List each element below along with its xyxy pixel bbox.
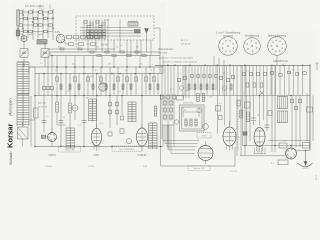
svg-text:1123: 1123 (316, 175, 318, 180)
svg-text:0,1: 0,1 (170, 89, 173, 91)
svg-text:gekuppelt: gekuppelt (181, 43, 190, 46)
svg-text:0,1: 0,1 (95, 70, 98, 72)
svg-text:0,1: 0,1 (292, 70, 295, 72)
svg-text:12193: 12193 (88, 166, 95, 168)
svg-text:Ber. 510/1620kHz: Ber. 510/1620kHz (119, 148, 134, 151)
svg-text:Gn 0,5 Gr: Gn 0,5 Gr (38, 106, 47, 109)
svg-text:0,1: 0,1 (78, 125, 81, 127)
svg-text:Korsar: Korsar (6, 123, 15, 148)
svg-text:6W 6W: 6W 6W (101, 45, 109, 47)
svg-text:50: 50 (222, 73, 224, 75)
svg-text:UF85: UF85 (93, 155, 99, 157)
svg-text:50p: 50p (72, 64, 75, 66)
svg-text:0,1: 0,1 (283, 141, 286, 143)
svg-text:50: 50 (242, 110, 244, 112)
svg-text:50: 50 (63, 117, 65, 119)
svg-text:(Autosuper): (Autosuper) (9, 98, 13, 116)
svg-text:400Ω: 400Ω (202, 136, 207, 138)
svg-text:0,1: 0,1 (246, 71, 249, 73)
svg-text:0,1: 0,1 (40, 63, 43, 65)
svg-text:W. 1-3: W. 1-3 (181, 40, 188, 42)
svg-text:UCH81: UCH81 (48, 155, 56, 157)
svg-text:6W: 6W (96, 47, 99, 49)
svg-text:6.05: 6.05 (55, 32, 60, 34)
svg-text:6-W228/Y2-32: 6-W228/Y2-32 (273, 61, 289, 63)
svg-text:0,5: 0,5 (46, 116, 49, 118)
svg-text:5k: 5k (150, 70, 152, 72)
svg-text:a: a (63, 76, 64, 78)
svg-text:1,2008: 1,2008 (45, 166, 52, 168)
svg-text:6W 0,1 4W: 6W 0,1 4W (65, 149, 75, 151)
svg-text:0,05: 0,05 (209, 97, 213, 99)
svg-text:5k: 5k (257, 115, 259, 117)
svg-text:b.6V6: b.6V6 (104, 20, 110, 22)
svg-text:0,05: 0,05 (162, 97, 166, 99)
svg-text:Auto 6B+: Auto 6B+ (38, 102, 47, 105)
svg-text:Beide W. u. Gemeinsam geschalt: Beide W. u. Gemeinsam geschaltet (159, 57, 194, 60)
svg-text:5k: 5k (55, 70, 57, 72)
svg-text:ZF 452 kHz: ZF 452 kHz (183, 102, 193, 104)
svg-text:4/Y2-32: 4/Y2-32 (230, 171, 238, 173)
svg-text:0,1: 0,1 (219, 103, 222, 105)
svg-text:Gleichr. 125: Gleichr. 125 (193, 167, 205, 170)
svg-text:UABC80: UABC80 (138, 154, 148, 157)
svg-text:50: 50 (116, 47, 118, 49)
svg-text:Novalfassung: Novalfassung (245, 34, 260, 37)
svg-text:Stahlrohrfassung: Stahlrohrfassung (268, 34, 287, 37)
svg-text:von unten: von unten (223, 35, 234, 38)
svg-text:6W: 6W (136, 47, 139, 49)
svg-text:6W: 6W (58, 47, 61, 49)
svg-text:Schalter in Stellung: Links ge: Schalter in Stellung: Links gedruckt (163, 60, 198, 63)
svg-text:Schaub: Schaub (8, 151, 13, 165)
svg-text:50: 50 (186, 90, 188, 92)
svg-text:0,1: 0,1 (178, 73, 181, 75)
svg-text:50: 50 (140, 64, 142, 66)
svg-text:4/5. 6V6 u.Gr/Gn: 4/5. 6V6 u.Gr/Gn (25, 5, 45, 8)
svg-text:0,1: 0,1 (76, 47, 79, 49)
svg-text:0,1: 0,1 (125, 70, 128, 72)
svg-text:k: k (98, 76, 99, 78)
